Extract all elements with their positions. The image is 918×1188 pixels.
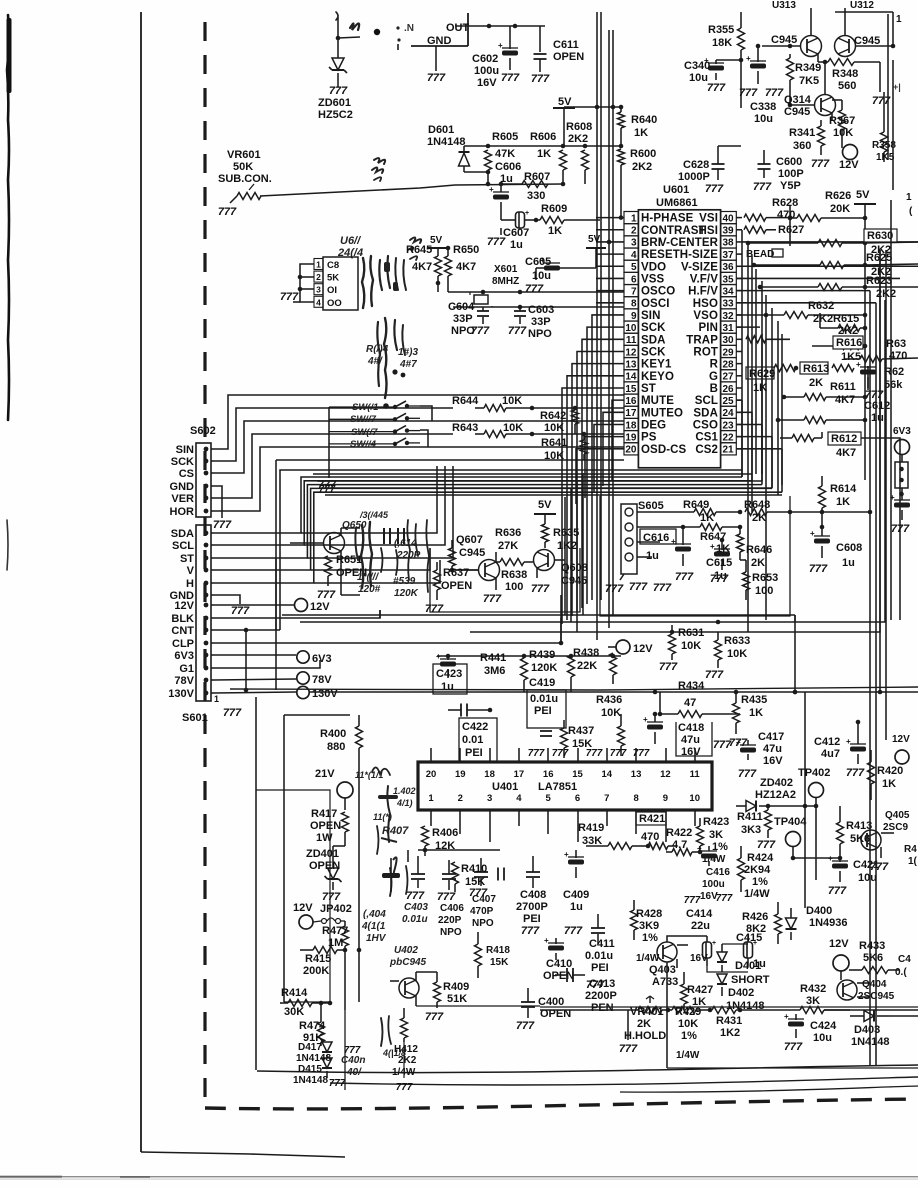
svg-text:R433: R433 (859, 940, 885, 952)
resistor R611b (776, 417, 868, 424)
svg-text:C417: C417 (758, 731, 784, 743)
wire 5V rail (564, 105, 623, 110)
svg-text:25: 25 (722, 396, 734, 407)
wire bus right 7 (777, 321, 779, 495)
svg-text:15K: 15K (490, 957, 509, 968)
svg-text:8: 8 (631, 299, 637, 310)
svg-text:1(: 1( (908, 856, 918, 867)
svg-text:777: 777 (487, 236, 506, 248)
connector 6V3 box (895, 462, 908, 500)
svg-text:R438: R438 (573, 647, 599, 659)
svg-text:SDA: SDA (693, 407, 718, 419)
ground C605 (525, 283, 544, 295)
svg-text:R418: R418 (486, 945, 510, 956)
resistor R406 (422, 826, 429, 856)
label X601 (492, 264, 519, 287)
label R616 (833, 336, 863, 363)
svg-text:470: 470 (777, 209, 795, 221)
svg-text:10: 10 (689, 793, 700, 804)
resistor R410 (452, 862, 459, 892)
capacitor C606 (489, 184, 509, 220)
label C414b (690, 953, 708, 964)
svg-text:RESET: RESET (641, 249, 680, 261)
scribble hash mid (408, 237, 421, 260)
wire left col2 (275, 558, 277, 690)
label U601 (656, 184, 698, 209)
capacitor 6V3 (890, 493, 910, 520)
svg-text:C418: C418 (678, 722, 704, 734)
label R630 (864, 229, 897, 256)
svg-text:33P: 33P (531, 316, 551, 328)
label R613 (800, 362, 829, 389)
svg-text:26: 26 (722, 384, 734, 395)
svg-text:4K7: 4K7 (456, 261, 476, 273)
memory U602 (314, 257, 358, 310)
svg-text:R628: R628 (772, 197, 798, 209)
svg-text:220P: 220P (438, 915, 462, 926)
svg-text:C403: C403 (404, 902, 428, 913)
svg-text:OUT: OUT (446, 22, 470, 34)
svg-text:777: 777 (809, 563, 828, 575)
svg-text:SIN: SIN (176, 444, 194, 456)
svg-text:777: 777 (508, 325, 527, 337)
svg-text:17: 17 (514, 769, 525, 780)
wire r406 row (418, 849, 500, 851)
resistor R422 (666, 849, 702, 856)
label R474 (299, 1020, 326, 1044)
svg-text:2200P: 2200P (585, 990, 617, 1002)
ground row2 (653, 582, 672, 594)
label R413 (846, 820, 872, 845)
svg-text:+: + (489, 185, 494, 194)
terminal 130V (297, 686, 339, 700)
terminal 12V tr (892, 734, 910, 764)
svg-text:Y5P: Y5P (780, 180, 801, 192)
svg-text:4/1): 4/1) (396, 798, 413, 808)
wire r441 top (437, 654, 621, 659)
label S601 (182, 712, 208, 724)
ground C403 (406, 890, 425, 902)
ground C622 (865, 389, 884, 401)
svg-text:1u: 1u (842, 557, 855, 569)
svg-text:2K: 2K (809, 377, 823, 389)
resistor R358 (881, 92, 888, 162)
transistor Q405 (861, 830, 894, 858)
svg-text:+: + (846, 737, 851, 746)
label R651 (336, 554, 367, 579)
label C407 (470, 894, 496, 929)
scribble cluster 1 (355, 522, 372, 588)
svg-text:4: 4 (516, 793, 522, 804)
resistor R637 (434, 562, 441, 600)
label R429 (675, 1006, 701, 1042)
svg-text:R605: R605 (492, 131, 518, 143)
capacitor C615 (710, 540, 730, 570)
svg-text:777: 777 (610, 748, 627, 759)
wire GND601 (214, 595, 250, 617)
resistor R616sym (812, 343, 867, 350)
svg-text:PS: PS (641, 432, 657, 444)
wire V (311, 548, 430, 570)
label SW601 (352, 402, 378, 413)
svg-text:3M6: 3M6 (484, 665, 505, 677)
wire C415 loop (667, 936, 748, 972)
scribble left3 (373, 812, 392, 854)
svg-text:R424: R424 (747, 852, 774, 864)
svg-text:16V: 16V (763, 755, 783, 767)
svg-text:C600: C600 (776, 156, 802, 168)
svg-text:G: G (709, 371, 718, 383)
svg-text:880: 880 (327, 741, 345, 753)
resistor R641 (581, 434, 588, 460)
svg-text:29: 29 (722, 347, 734, 358)
label R615 (833, 313, 859, 337)
resistor R367 (832, 100, 846, 148)
marks near regulator (396, 23, 414, 50)
svg-text:777: 777 (501, 72, 520, 84)
wire term12v (608, 646, 616, 648)
svg-text:777: 777 (223, 707, 242, 719)
resistor R341 (818, 120, 825, 155)
label R611 (830, 381, 856, 406)
svg-text:+: + (736, 738, 741, 747)
scribble U602 right (362, 256, 406, 308)
svg-text:NPO: NPO (451, 325, 475, 337)
wire bus right 1 (747, 243, 749, 632)
svg-text:40/: 40/ (346, 1067, 362, 1078)
svg-text:C412: C412 (814, 736, 840, 748)
svg-text:R410: R410 (461, 863, 487, 875)
svg-text:S601: S601 (182, 712, 208, 724)
label R431 (716, 1015, 742, 1039)
transistor Q403 (657, 942, 688, 968)
wire q608 col (380, 610, 561, 643)
op-amp U601 (624, 210, 736, 468)
svg-text:4: 4 (316, 297, 321, 307)
svg-text:PIN: PIN (699, 322, 718, 334)
label C421 (853, 859, 879, 884)
svg-text:11: 11 (626, 335, 637, 346)
svg-text:777: 777 (757, 839, 776, 851)
label ZD401 (306, 848, 340, 872)
label R412 (392, 1044, 418, 1078)
svg-text:120#: 120# (358, 584, 381, 595)
label R632 (808, 300, 834, 325)
label R349 (795, 62, 821, 87)
ground Q314 (811, 158, 830, 170)
capacitor C412 (846, 720, 866, 764)
label JP402 (293, 902, 352, 915)
svg-text:SHORT: SHORT (731, 974, 770, 986)
svg-text:777: 777 (765, 87, 784, 99)
label C608 (836, 542, 862, 569)
label R426 (742, 911, 768, 935)
svg-text:OPEN: OPEN (309, 860, 340, 872)
label Q405 (883, 810, 910, 833)
svg-text:7K5: 7K5 (799, 75, 819, 87)
svg-text:MUTEO: MUTEO (641, 407, 683, 419)
svg-text:PEI: PEI (534, 705, 552, 717)
svg-text:19: 19 (625, 432, 637, 443)
capacitor C400 (521, 988, 535, 1018)
wire R434 (310, 690, 918, 695)
label R439 (529, 649, 557, 674)
svg-text:PEI: PEI (523, 913, 541, 925)
wire right long5 (890, 200, 892, 620)
svg-text:C409: C409 (563, 889, 589, 901)
label R358 (872, 140, 896, 163)
svg-text:BLK: BLK (171, 613, 194, 625)
resistor R47 (658, 692, 740, 718)
svg-text:+: + (564, 850, 569, 859)
terminal 12V s601 (295, 599, 331, 614)
svg-text:R607: R607 (524, 171, 550, 183)
svg-text:12: 12 (660, 769, 671, 780)
label R631 (678, 627, 704, 652)
label U401 (492, 781, 577, 793)
svg-text:R477: R477 (322, 925, 348, 937)
svg-text:A733: A733 (652, 976, 678, 988)
svg-text:Q403: Q403 (649, 964, 676, 976)
svg-text:777: 777 (329, 85, 348, 97)
svg-text:10K: 10K (544, 422, 564, 434)
wire 6V3 term (214, 654, 296, 656)
svg-text:C408: C408 (520, 889, 546, 901)
svg-text:777: 777 (483, 593, 502, 605)
svg-text:C606: C606 (495, 161, 521, 173)
resistor R432 (780, 1007, 837, 1014)
svg-text:50K: 50K (233, 161, 253, 173)
svg-text:30K: 30K (284, 1006, 304, 1018)
resistor R640 (618, 107, 625, 148)
label C408 (516, 889, 548, 925)
diode D400 (786, 908, 797, 940)
diode D401 (717, 944, 727, 972)
dashed border bottom (205, 1099, 918, 1109)
svg-text:R642: R642 (540, 410, 566, 422)
capacitor C602 (498, 26, 518, 70)
wire under-ic h2 (317, 480, 762, 482)
svg-text:OSCI: OSCI (641, 298, 670, 310)
resistor R355 (738, 12, 745, 108)
label SW603 (351, 427, 378, 438)
svg-text:2K2: 2K2 (838, 325, 858, 337)
capacitor C411 (591, 914, 605, 944)
ground C407 (469, 887, 488, 899)
svg-text:21V: 21V (315, 768, 335, 780)
svg-text:HOR: HOR (170, 506, 195, 518)
svg-text:R614: R614 (830, 483, 857, 495)
capacitor C608 (810, 529, 830, 558)
label C413 (585, 978, 617, 1014)
svg-text:32: 32 (722, 311, 734, 322)
svg-text:16V: 16V (477, 77, 497, 89)
ground 6V3 (891, 523, 910, 535)
resistor R628sym (744, 214, 792, 221)
svg-text:12V: 12V (839, 159, 859, 171)
crystal X601 (470, 292, 492, 307)
svg-text:R625: R625 (866, 252, 892, 264)
svg-text:R644: R644 (452, 395, 479, 407)
label C415 (736, 932, 766, 970)
svg-text:C416: C416 (706, 867, 730, 878)
svg-text:9: 9 (631, 311, 637, 322)
svg-text:1K: 1K (634, 127, 648, 139)
resistor R418 (475, 932, 482, 978)
svg-text:C945: C945 (771, 34, 797, 46)
resistor R435sym (733, 690, 740, 734)
resistor R429 (666, 1007, 696, 1014)
svg-text:PEI: PEI (591, 962, 609, 974)
label R477 (322, 925, 348, 949)
svg-text:777: 777 (705, 669, 724, 681)
label R432 (800, 983, 826, 1007)
svg-text:C338: C338 (750, 101, 776, 113)
svg-text:2K2: 2K2 (398, 1055, 417, 1066)
bottom scan band (0, 1176, 918, 1180)
resistor R424 (738, 846, 745, 892)
svg-text:R630: R630 (867, 230, 893, 242)
wire right col x868 (867, 366, 869, 390)
label GND (427, 35, 452, 47)
svg-text:+: + (544, 936, 549, 945)
svg-text:R637: R637 (443, 567, 469, 579)
ground C421 (828, 885, 847, 897)
label R423b (702, 854, 726, 865)
resistor R427 (681, 972, 688, 1010)
capacitor C418 (643, 712, 663, 744)
terminal 78V (297, 672, 332, 686)
wire top right vert1 (887, 14, 889, 160)
svg-text:R432: R432 (800, 983, 826, 995)
svg-text:D415: D415 (298, 1064, 322, 1075)
label R623 (866, 275, 896, 300)
svg-text:1K5: 1K5 (876, 152, 895, 163)
wire 130V term (214, 692, 296, 693)
svg-text:SCK: SCK (171, 456, 194, 468)
svg-text:R406: R406 (432, 827, 458, 839)
svg-text:PEN: PEN (591, 1002, 614, 1014)
label R641 (541, 437, 567, 462)
svg-text:6V3: 6V3 (312, 653, 332, 665)
ground S601 (214, 700, 242, 719)
svg-text:OO: OO (327, 298, 342, 309)
svg-text:1%: 1% (681, 1030, 697, 1042)
ground C418g (713, 739, 732, 751)
label OUT (446, 22, 470, 34)
svg-text:6V3: 6V3 (174, 650, 194, 662)
capacitor C416 (697, 844, 717, 866)
wire 21v col (345, 1010, 404, 1090)
ground C338b (765, 87, 784, 99)
svg-text:R646: R646 (746, 544, 772, 556)
label U401 pins (426, 769, 701, 804)
svg-text:10u: 10u (532, 270, 551, 282)
svg-text:777: 777 (406, 890, 425, 902)
ground row1 (629, 581, 648, 593)
svg-text:777: 777 (828, 885, 847, 897)
scribble left2 (378, 786, 416, 842)
svg-text:27K: 27K (498, 540, 518, 552)
svg-text:TP404: TP404 (774, 816, 807, 828)
label Q313 (772, 0, 796, 11)
svg-text:(,614: (,614 (394, 538, 417, 549)
svg-text:39: 39 (722, 226, 734, 237)
svg-text:777: 777 (531, 73, 550, 85)
wire CNT (214, 470, 742, 632)
scribble left4 (390, 857, 397, 896)
resistor R438 (610, 653, 617, 684)
svg-text:C414: C414 (686, 908, 713, 920)
resistor R605 (485, 150, 492, 186)
svg-text:1K: 1K (537, 148, 551, 160)
diode D403 (850, 1011, 890, 1022)
resistor R649 (694, 509, 742, 516)
svg-text:R415: R415 (305, 953, 331, 965)
wire vert fan4 (582, 473, 584, 615)
svg-text:777: 777 (653, 582, 672, 594)
svg-text:14: 14 (602, 769, 613, 780)
label R417 (310, 808, 341, 844)
svg-text:TP402: TP402 (798, 767, 830, 779)
wire bus right 0 (741, 230, 743, 477)
wire bus right 6 (771, 308, 773, 488)
svg-text:R367: R367 (829, 115, 855, 127)
svg-text:2700P: 2700P (516, 901, 548, 913)
svg-text:10K: 10K (503, 422, 523, 434)
wire CLP (214, 641, 563, 646)
svg-text:2: 2 (316, 272, 321, 282)
label R355 (708, 24, 734, 49)
wire sw out (420, 406, 432, 447)
ground R631 (659, 661, 678, 673)
svg-text:R422: R422 (666, 827, 692, 839)
svg-text:5V: 5V (588, 234, 601, 245)
svg-text:R349: R349 (795, 62, 821, 74)
svg-text:777: 777 (605, 583, 624, 595)
wire bottom right vert (666, 962, 668, 1068)
svg-text:CSO: CSO (693, 419, 718, 431)
capacitor C614b (396, 528, 404, 575)
svg-text:SDA: SDA (641, 334, 666, 346)
svg-text:777: 777 (425, 1011, 444, 1023)
label D403 (851, 1024, 890, 1048)
svg-text:C945: C945 (459, 547, 485, 559)
svg-text:36: 36 (722, 262, 734, 273)
svg-text:R645: R645 (406, 244, 432, 256)
svg-text:+: + (436, 652, 441, 661)
ground C400 (516, 1020, 535, 1032)
svg-text:R649: R649 (683, 499, 709, 511)
svg-text:SDA: SDA (171, 528, 194, 540)
capacitor C414 (703, 936, 717, 966)
svg-text:31: 31 (722, 323, 734, 334)
svg-text:C423: C423 (436, 668, 462, 680)
bottom curve 2 (330, 1077, 918, 1085)
svg-text:C422: C422 (462, 721, 488, 733)
svg-text:C407: C407 (472, 894, 496, 905)
op-amp U401 box (418, 762, 712, 810)
resistor R419 (586, 843, 650, 850)
svg-text:20: 20 (426, 769, 437, 780)
svg-text:1N4148: 1N4148 (296, 1053, 331, 1064)
wire row p17 (214, 421, 624, 473)
transistor Q314 (790, 60, 836, 120)
svg-text:7: 7 (604, 793, 609, 804)
svg-text:R616: R616 (836, 337, 862, 349)
svg-text:R635: R635 (553, 527, 579, 539)
connector S602 (170, 443, 214, 518)
